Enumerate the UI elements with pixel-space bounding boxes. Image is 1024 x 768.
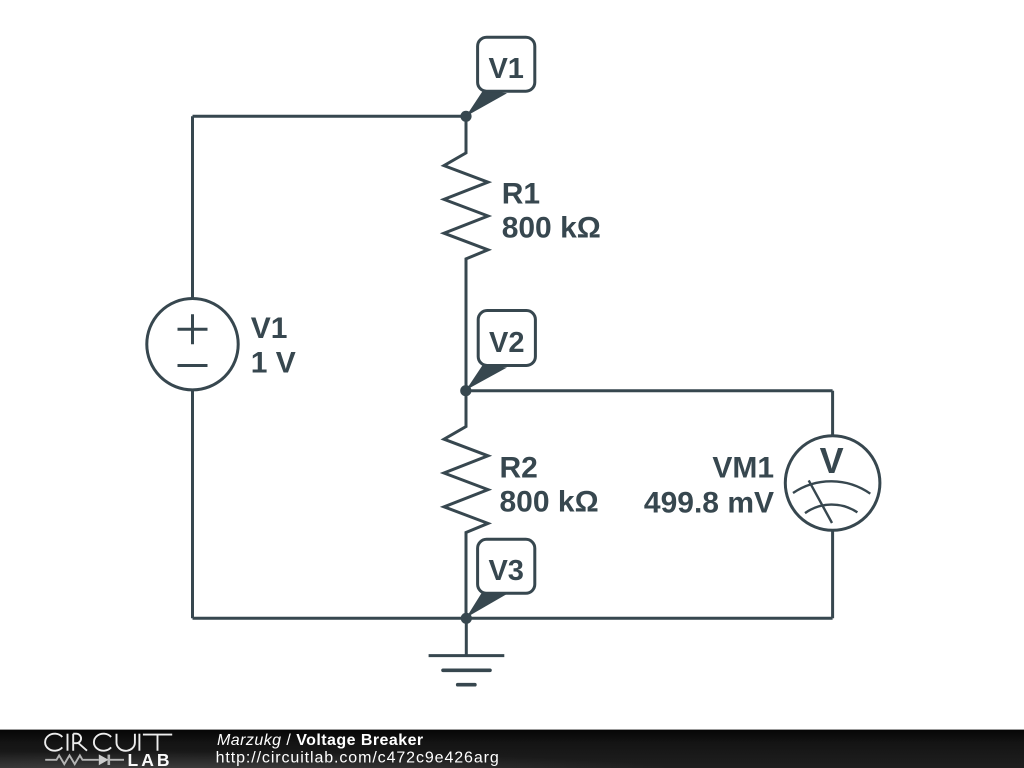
voltage source V1: [147, 299, 238, 390]
logo resistor-diode wire: [45, 755, 124, 765]
label R2 800 kOhm: [500, 451, 599, 518]
svg-text:V1: V1: [251, 312, 288, 345]
voltmeter VM1: [785, 436, 880, 531]
resistor R2: [444, 391, 488, 619]
node flag V2 box: [478, 311, 535, 366]
node dot V1: [460, 111, 471, 122]
logo diode triangle: [99, 754, 109, 765]
svg-text:V2: V2: [489, 327, 524, 359]
node flag V3 box: [478, 539, 535, 593]
footer bar: [0, 730, 1024, 768]
ground: [429, 618, 505, 684]
label VM1 499.8 mV: [644, 452, 774, 520]
svg-text:http://circuitlab.com/c472c9e4: http://circuitlab.com/c472c9e426arg: [216, 750, 500, 767]
node dot V2: [460, 385, 471, 396]
svg-text:V1: V1: [488, 53, 523, 85]
svg-text:Marzukg / Voltage Breaker: Marzukg / Voltage Breaker: [217, 732, 424, 749]
node flag V3 pointer: [466, 591, 506, 618]
wire left vertical upper: [191, 116, 194, 298]
label V1 1 V: [251, 312, 296, 380]
svg-text:R1: R1: [502, 177, 540, 210]
resistor R1: [444, 116, 488, 390]
wire voltmeter bottom lead: [831, 530, 834, 618]
node dot V3: [461, 613, 472, 624]
logo CIRCUIT: [45, 734, 172, 751]
node flag V1 box: [478, 37, 535, 91]
svg-text:800 kΩ: 800 kΩ: [502, 211, 601, 244]
wire left vertical lower: [191, 390, 194, 619]
wire voltmeter top lead: [831, 391, 834, 436]
svg-text:1 V: 1 V: [251, 347, 296, 380]
svg-text:V: V: [820, 440, 844, 481]
node flag V1 pointer: [466, 90, 507, 117]
wire bottom horizontal: [193, 617, 833, 620]
svg-text:800 kΩ: 800 kΩ: [500, 485, 599, 518]
svg-text:VM1: VM1: [712, 452, 774, 485]
svg-text:499.8 mV: 499.8 mV: [644, 487, 774, 520]
label R1 800 kOhm: [502, 177, 601, 244]
node flag V2 pointer: [466, 365, 507, 391]
wire top horizontal: [193, 115, 467, 118]
svg-text:V3: V3: [488, 555, 523, 587]
svg-text:LAB: LAB: [128, 750, 173, 768]
wire node V2 to voltmeter: [466, 389, 833, 392]
svg-text:R2: R2: [500, 451, 538, 484]
